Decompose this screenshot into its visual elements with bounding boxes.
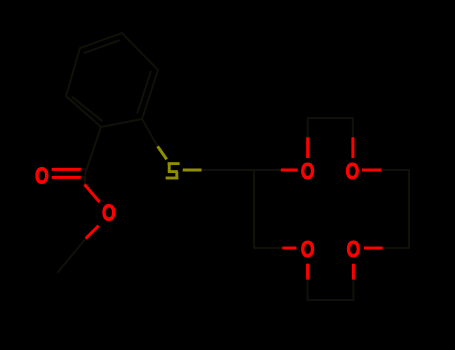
svg-text:O: O [301, 158, 315, 184]
svg-text:O: O [347, 236, 361, 262]
svg-text:O: O [102, 200, 116, 226]
svg-text:O: O [301, 236, 315, 262]
svg-text:O: O [35, 162, 49, 188]
svg-text:O: O [346, 158, 360, 184]
